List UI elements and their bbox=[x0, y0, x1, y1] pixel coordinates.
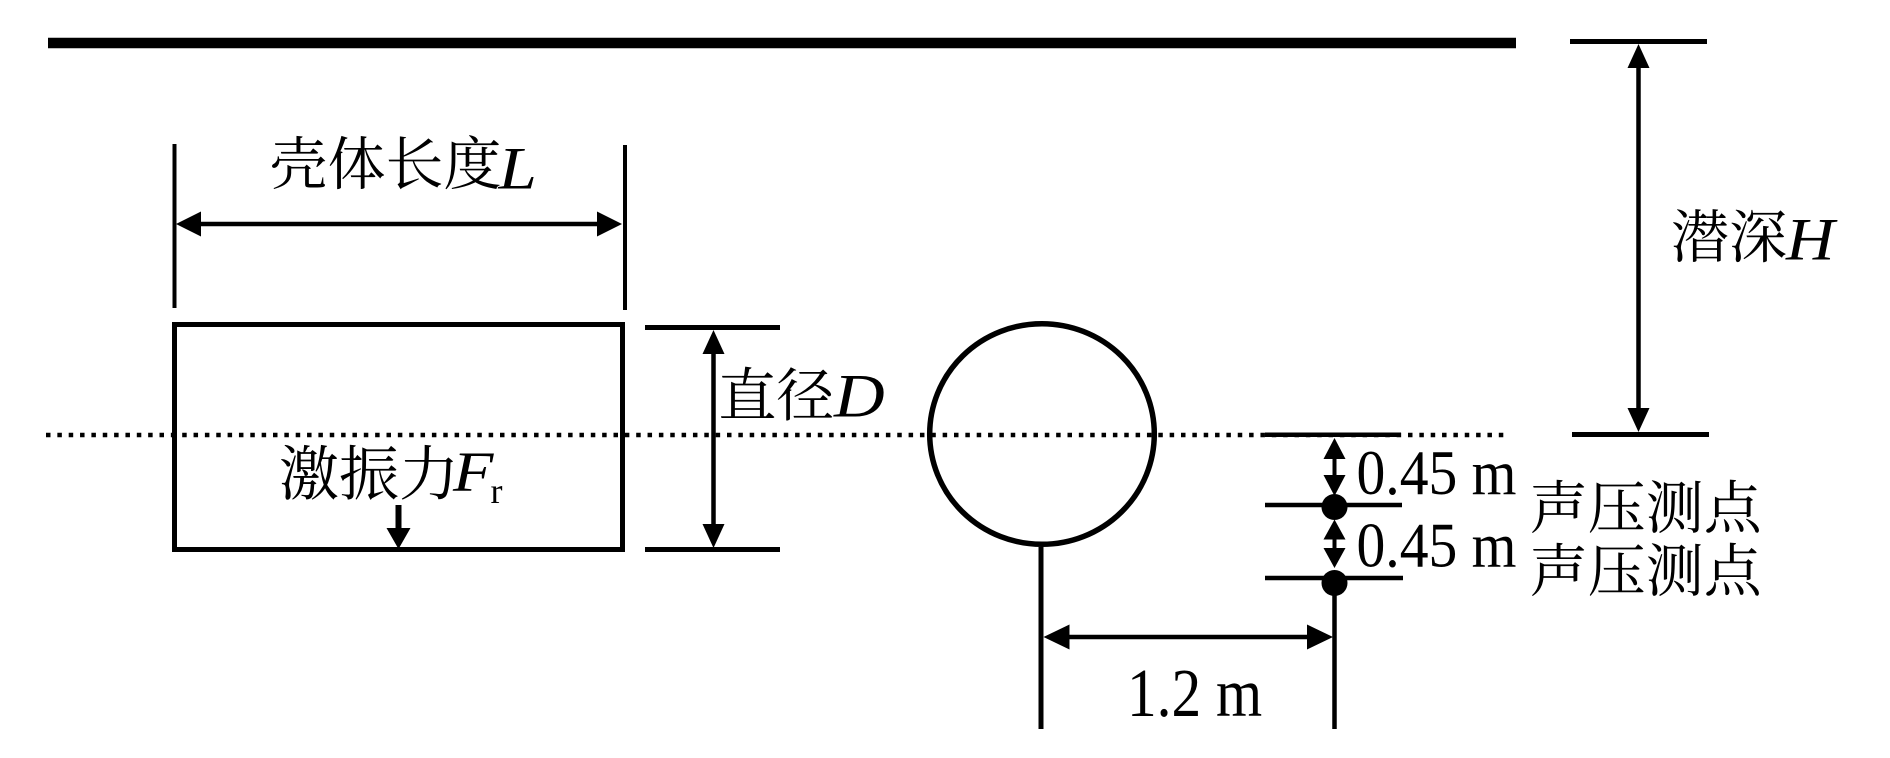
depth H dimension: bottom cap line bbox=[1572, 432, 1709, 437]
vertical line below measurement dots bbox=[1332, 589, 1337, 729]
svg-text:1.2 m: 1.2 m bbox=[1127, 655, 1262, 731]
shell length dimension: double-headed arrow bbox=[176, 212, 622, 237]
sound pressure measurement dot 1 bbox=[1322, 494, 1348, 520]
diameter dimension: double-headed arrow bbox=[703, 330, 725, 548]
excitation force arrow (downward) bbox=[387, 505, 411, 549]
svg-text:0.45 m: 0.45 m bbox=[1357, 438, 1517, 508]
label: shell length L (壳体长度L) bbox=[272, 135, 537, 202]
svg-text:r: r bbox=[491, 471, 503, 511]
label: sound pressure point 1 (声压测点) bbox=[1532, 480, 1759, 533]
label: 1.2 m bbox=[1127, 655, 1262, 731]
measurement column: tick line 2 bbox=[1265, 576, 1403, 581]
svg-text:L: L bbox=[497, 135, 536, 202]
sound pressure measurement dot 2 bbox=[1322, 570, 1348, 596]
label: diameter D (直径D) bbox=[721, 363, 885, 431]
vertical line below circle bbox=[1039, 547, 1044, 729]
cylindrical shell rectangle (side view) bbox=[175, 325, 623, 550]
depth H dimension: top cap line bbox=[1570, 39, 1707, 44]
0.45 m dimension arrow 2 bbox=[1324, 520, 1346, 569]
label: sound pressure point 2 (声压测点) bbox=[1532, 543, 1759, 596]
1.2 m dimension arrow bbox=[1044, 625, 1334, 650]
label: 0.45 m (lower) bbox=[1357, 511, 1517, 581]
svg-text:D: D bbox=[833, 363, 885, 431]
measurement column: tick at axis level bbox=[1265, 433, 1401, 438]
label: depth H (潜深H) bbox=[1673, 206, 1838, 273]
axis dotted center line bbox=[46, 433, 1506, 438]
water surface line bbox=[48, 38, 1516, 49]
label: 0.45 m (upper) bbox=[1357, 438, 1517, 508]
svg-text:0.45 m: 0.45 m bbox=[1357, 511, 1517, 581]
diameter dimension: top cap line bbox=[645, 325, 780, 330]
measurement column: tick line 1 bbox=[1265, 503, 1402, 508]
0.45 m dimension arrow 1 bbox=[1324, 438, 1346, 496]
svg-text:F: F bbox=[452, 441, 495, 504]
shell circle (end view) bbox=[930, 324, 1155, 545]
shell length dimension: left extension line bbox=[173, 144, 177, 308]
diameter dimension: bottom cap line bbox=[645, 547, 780, 552]
depth H dimension: double-headed arrow bbox=[1628, 44, 1650, 432]
label: excitation force Fr (激振力F_r) bbox=[281, 441, 502, 511]
shell length dimension: right extension line bbox=[623, 145, 627, 310]
svg-text:H: H bbox=[1785, 206, 1838, 273]
